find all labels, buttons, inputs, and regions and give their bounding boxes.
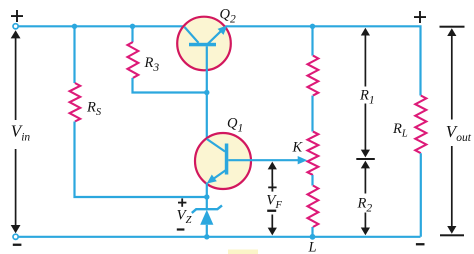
Q2 base lead down	[206, 46, 208, 92]
resistor R3	[128, 42, 139, 78]
Q1 base bar	[225, 144, 229, 175]
resistor chain lower section (R2)	[308, 186, 319, 228]
Q1 emitter wire to zener node	[206, 183, 208, 198]
node: RS top junction	[72, 24, 77, 29]
Vout top bar	[440, 26, 465, 28]
Q1 emitter lead with arrow	[211, 170, 226, 181]
label + (VZ)	[178, 202, 186, 204]
resistor chain middle section (wiper K taps here)	[308, 132, 319, 176]
transistor Q2 (series pass)	[177, 17, 231, 71]
wire RS bottom lead down to zener node	[75, 122, 206, 198]
wire chain middle lower	[311, 175, 313, 186]
node: R3 top junction	[130, 24, 135, 29]
label - (output negative)	[416, 243, 425, 245]
wire chain bottom lead	[311, 227, 313, 237]
label + (input positive)	[11, 15, 23, 17]
Vout dimension arrow	[451, 31, 453, 120]
node: Q2 base / R3 junction	[204, 90, 209, 95]
label - (VF)	[267, 210, 276, 212]
resistor RS	[70, 83, 81, 122]
R2 dimension arrow	[364, 163, 366, 194]
wire chain top lead	[311, 26, 313, 55]
Vout bottom bar	[440, 234, 464, 236]
wire chain middle upper	[311, 96, 313, 132]
Q2 collector lead	[185, 27, 199, 43]
label - (input negative)	[13, 244, 22, 246]
Vin dimension arrow	[15, 36, 17, 120]
VF dimension arrow	[271, 165, 273, 184]
wire zener bottom lead	[206, 225, 208, 237]
transistor Q1 (error amplifier)	[195, 133, 251, 189]
wire zener top lead	[206, 197, 208, 209]
node L: chain bottom on rail	[310, 234, 316, 240]
label + (output positive)	[414, 16, 426, 18]
R1 dimension arrow	[364, 31, 366, 87]
node: zener / RS / Q1 emitter junction	[204, 194, 209, 199]
wire Q2 base junction down to Q1 collector	[206, 93, 208, 141]
R1/R2 separator bar	[356, 158, 375, 160]
Q1 base wire to wiper K with arrow	[228, 159, 299, 161]
Q1 collector lead	[207, 139, 225, 152]
node: zener anode on bottom rail	[204, 234, 209, 239]
svg-text:L: L	[308, 240, 317, 254]
input terminal bottom	[13, 234, 18, 239]
zener diode VZ cathode bar	[192, 205, 222, 213]
wire R3 bottom lead to Q2 base line	[133, 78, 206, 93]
wire RS top lead	[73, 26, 75, 83]
caption highlight (cut off at bottom)	[228, 250, 258, 254]
Q2 base bar	[189, 43, 216, 47]
Q2 emitter lead with arrow	[207, 31, 222, 45]
zener diode VZ anode triangle	[200, 210, 213, 225]
wire RL bottom lead	[420, 153, 422, 237]
input terminal top	[13, 24, 18, 29]
wire bottom rail	[18, 236, 421, 238]
resistor RL	[415, 96, 426, 154]
wire R3 top lead	[131, 26, 133, 42]
resistor chain upper section (R1)	[308, 56, 319, 96]
label + (VF)	[268, 187, 276, 189]
wire top rail right (Q2 emitter to RL)	[226, 26, 421, 95]
wire top rail left (input+ to Q2 collector)	[18, 25, 186, 27]
svg-text:K: K	[292, 140, 304, 156]
node: sampling chain top junction	[310, 24, 315, 29]
label - (VZ)	[177, 228, 185, 230]
